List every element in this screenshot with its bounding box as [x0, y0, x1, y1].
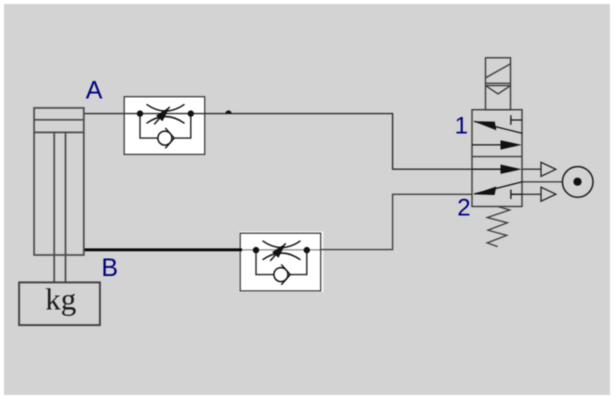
return spring	[487, 207, 510, 247]
svg-text:A: A	[86, 76, 103, 104]
check valve seat	[165, 128, 174, 148]
wire cylinder port B to V2 (pressurized, thick)	[84, 248, 242, 251]
adjustment arrow	[270, 243, 286, 261]
bypass wire right	[290, 250, 307, 275]
bypass wire left	[140, 114, 158, 139]
label position 1	[455, 113, 468, 140]
throttle arcs	[147, 104, 185, 123]
node dot left	[137, 110, 143, 116]
straight flow arrow	[472, 144, 516, 146]
diagonal flow arrow	[474, 121, 522, 133]
label A	[86, 76, 103, 104]
node junction on wire A	[225, 110, 231, 113]
cylinder body	[34, 108, 84, 255]
solenoid actuator	[486, 58, 511, 110]
blocked port T top right	[511, 115, 522, 124]
flow control valve V2 internals	[253, 241, 310, 285]
svg-text:kg: kg	[45, 282, 76, 317]
blocked port T bottom right	[511, 190, 522, 199]
flow control valve V1 internals	[137, 104, 194, 148]
straight flow arrow	[472, 168, 516, 170]
valve position 1 internals	[472, 115, 522, 149]
flow control valve V2 white body	[239, 232, 323, 293]
svg-text:2: 2	[457, 195, 470, 222]
pressure source	[522, 167, 593, 198]
throttle arcs	[263, 241, 301, 260]
exhaust port bottom	[522, 187, 556, 201]
exhaust port top	[522, 162, 556, 176]
label B	[101, 254, 118, 282]
node dot left	[253, 247, 259, 253]
5/2-way valve body	[472, 110, 522, 207]
adjustment arrow	[154, 107, 170, 125]
flow control valve V1 white body	[124, 97, 205, 155]
wire V2 to valve port	[320, 194, 472, 249]
wire V2 through-line (light)	[242, 249, 320, 251]
bypass wire left	[256, 250, 274, 275]
check valve circle	[158, 131, 172, 145]
diagonal flow arrow	[474, 182, 522, 194]
wire cylinder port A to valve	[84, 114, 472, 170]
node dot right	[304, 247, 310, 253]
svg-text:1: 1	[455, 113, 468, 140]
label position 2	[457, 195, 470, 222]
svg-text:B: B	[101, 254, 118, 282]
cylinder piston rod	[54, 132, 65, 282]
bypass wire right	[174, 114, 191, 139]
load mass kg box	[19, 282, 100, 326]
check valve circle	[274, 268, 288, 282]
check valve seat	[281, 264, 290, 284]
valve position 2 internals	[472, 165, 522, 200]
node dot right	[188, 110, 194, 116]
